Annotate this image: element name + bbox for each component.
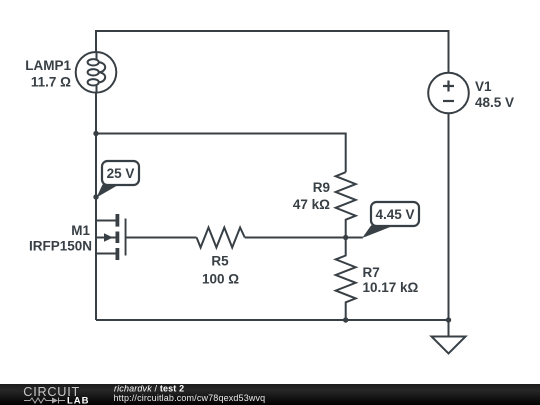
wire left rail — [95, 93, 97, 321]
svg-text:10.17 kΩ: 10.17 kΩ — [363, 280, 419, 295]
svg-text:M1: M1 — [71, 223, 90, 238]
svg-text:http://circuitlab.com/cw78qexd: http://circuitlab.com/cw78qexd53wvq — [114, 393, 266, 403]
svg-text:R5: R5 — [211, 254, 229, 269]
voltage source V1 — [428, 73, 469, 114]
svg-text:100 Ω: 100 Ω — [202, 272, 239, 287]
svg-text:richardvk / test 2: richardvk / test 2 — [114, 384, 184, 394]
node C (R7/bottom rail junction) — [343, 317, 348, 322]
svg-text:11.7 Ω: 11.7 Ω — [31, 75, 71, 90]
svg-text:4.45 V: 4.45 V — [375, 207, 414, 222]
footer bar — [0, 384, 540, 405]
svg-text:V1: V1 — [475, 79, 492, 94]
node B (R9/R7/R5 junction) — [343, 235, 348, 240]
svg-text:IRFP150N: IRFP150N — [29, 239, 92, 254]
logo squiggle resistor+diode — [24, 398, 65, 404]
resistor R5 — [197, 228, 245, 248]
svg-text:48.5 V: 48.5 V — [475, 95, 514, 110]
node D (ground junction) — [446, 317, 451, 322]
svg-text:LAMP1: LAMP1 — [25, 58, 71, 73]
svg-text:47 kΩ: 47 kΩ — [293, 197, 330, 212]
svg-text:R9: R9 — [313, 180, 330, 195]
svg-text:25 V: 25 V — [107, 166, 135, 181]
lamp LAMP1 — [76, 52, 117, 93]
resistor R9 — [336, 172, 356, 237]
callout 4.45 V — [346, 202, 419, 238]
node A (rail/R9 junction) — [93, 131, 98, 136]
svg-text:R7: R7 — [363, 265, 380, 280]
wire middle horizontal to R9 — [96, 134, 346, 173]
wire top rail — [96, 31, 449, 73]
ground — [432, 320, 466, 354]
resistor R7 — [336, 238, 356, 321]
node probe 25V anchor — [93, 194, 98, 199]
transistor M1 — [96, 214, 127, 260]
wire R5 to node — [245, 237, 346, 239]
wire V1 bottom to ground node — [448, 113, 450, 320]
callout 25 V — [97, 161, 140, 198]
svg-text:LAB: LAB — [67, 395, 90, 405]
wire gate to R5 — [127, 237, 197, 239]
wire bottom rail — [96, 319, 449, 321]
